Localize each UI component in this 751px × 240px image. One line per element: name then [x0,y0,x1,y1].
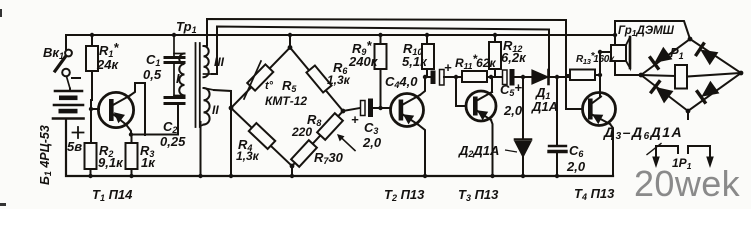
svg-text:1,3к: 1,3к [327,73,351,87]
svg-text:I: I [176,72,180,86]
svg-text:R5: R5 [282,78,297,94]
resistor R8 [317,113,343,140]
svg-text:C2: C2 [163,119,177,135]
capacitor C1 [165,35,184,96]
svg-text:R13*160к: R13*160к [576,51,615,66]
svg-text:Б1 4РЦ-53: Б1 4РЦ-53 [38,125,53,185]
svg-text:20wek: 20wek [634,163,741,204]
svg-text:Т2 П13: Т2 П13 [384,187,425,203]
wire: base lead T1 [91,108,99,110]
wire: to C5 [491,76,503,78]
node: bridge bottom vertex [290,164,295,179]
transistor T1 [98,92,133,127]
wire: main top rail [66,35,615,49]
svg-text:R730: R730 [314,150,344,166]
svg-text:6,2к: 6,2к [501,50,527,65]
wire: T2 collector up [420,77,425,95]
thermistor R5 KMT-12 [244,61,273,99]
svg-text:2,0: 2,0 [503,103,523,118]
svg-text:III: III [214,55,225,69]
svg-text:C6: C6 [569,143,584,159]
wire: top line from winding III top to T4 base [207,19,582,109]
node: R3 ground [129,174,133,178]
resistor R12 [489,35,501,77]
resistor R4 [249,123,275,149]
capacitor C5 [503,69,533,86]
node: R13 right junction [598,73,602,77]
resistor R11 [456,71,491,82]
wire: second line from winding III bottom to D1 node [212,27,549,76]
svg-text:5,1к: 5,1к [402,54,428,69]
switch Vk1 [55,50,80,89]
svg-text:C1: C1 [146,52,160,68]
capacitor C2 [165,98,184,104]
svg-text:1,3к: 1,3к [236,149,260,163]
transistor T2 [391,94,424,127]
svg-text:C3: C3 [364,120,378,136]
transformer Tr1 core [196,43,200,127]
resistor R3 [126,135,138,177]
wire: T4 collector [599,52,601,97]
svg-text:0,5: 0,5 [143,67,162,82]
svg-text:Гр1ДЭМШ: Гр1ДЭМШ [618,25,675,38]
node: speaker left junction [598,50,602,54]
node: T3 base junction [454,75,458,79]
svg-text:2,0: 2,0 [566,159,586,174]
wire: winding II bottom to ground [200,122,202,176]
svg-text:Д3–Д6Д1А: Д3–Д6Д1А [603,124,683,142]
diode D5 [651,81,673,102]
resistor R2 [85,143,97,176]
svg-text:+: + [351,112,359,127]
svg-text:9,1к: 9,1к [98,155,124,170]
transistor T4 [583,93,616,126]
svg-text:220: 220 [291,125,312,139]
svg-text:Д1А: Д1А [531,99,558,114]
wire: C3 to T2 base [381,107,392,109]
svg-text:P1: P1 [670,45,684,61]
svg-text:0,25: 0,25 [160,134,186,149]
capacitor C6 [549,77,566,176]
node: T1 emitter junction [129,132,133,136]
transformer Tr1 winding I [174,54,185,96]
bridge arm bottom-right [292,111,343,166]
node: C1 top [172,33,176,37]
svg-text:+: + [444,60,452,75]
transistor T3 [466,91,496,121]
wire: bottom ground rail [66,120,613,176]
diode D3 [650,48,672,69]
svg-text:Т1 П14: Т1 П14 [92,187,133,203]
wire: winding II top to bridge left vertex [214,90,231,108]
wire: T1 emitter to node [126,125,131,135]
svg-text:5в: 5в [67,139,82,154]
speaker Gr1 DEMSh [600,21,690,75]
svg-text:Т4 П13: Т4 П13 [574,186,615,202]
node: R9 bottom junction [378,106,382,110]
svg-text:t°: t° [265,80,274,92]
diode D4 [696,43,717,64]
battery B1 4RTs-53 [53,89,84,139]
svg-text:Тр1: Тр1 [176,19,197,35]
svg-text:КМТ-12: КМТ-12 [265,94,307,108]
node: bridge left vertex [229,106,234,179]
svg-text:C44,0: C44,0 [385,74,418,90]
wire: T3 base drop [456,77,466,106]
node: bridge top vertex [288,33,293,50]
node: R2 ground [88,174,92,178]
resistor R13 [566,70,600,81]
node: R1 top junction [90,33,94,37]
node: R12 bottom junction [489,75,493,79]
scan edge artifacts [0,9,6,206]
wire: stage2 coupling [425,76,431,78]
svg-text:Т3 П13: Т3 П13 [458,187,499,203]
svg-text:Вк1: Вк1 [43,45,64,61]
svg-text:II: II [212,103,219,117]
capacitor C3 [361,99,381,118]
node: rail meets speaker [613,33,617,37]
resistor R6 [306,65,331,92]
wire: T2 emitter to ground [418,125,425,177]
diode D1 [532,70,571,84]
wire: T3 collector up [491,77,493,92]
wire: bridge right vertex to C3 [343,108,360,111]
svg-text:1к: 1к [141,155,156,170]
node: bridge right vertex [341,109,346,114]
svg-text:240к: 240к [348,54,379,69]
svg-text:Д2Д1А: Д2Д1А [458,143,499,159]
resistor R9 [375,35,387,108]
bridge arm left-bottom [231,108,292,166]
leader line D2 [505,150,517,152]
wire: base divider vertical [90,100,92,143]
node: T1 base junction [89,107,93,111]
wire: T3 emitter to ground [491,120,493,176]
resistor R10 [422,35,434,77]
bridge arm left-top [231,48,290,109]
transformer Tr1 winding II [201,88,215,126]
transformer Tr1 winding III [204,46,213,77]
node: T2 collector junction [423,75,427,79]
wire: T1 collector loop [130,83,145,135]
wire: emitter node horizontal [131,106,178,135]
capacitor C4 [431,70,457,86]
node: D2 junction [521,75,525,79]
resistor R1 [86,35,98,100]
node: C6 junction [555,75,559,79]
variable arrow R8 [337,134,355,151]
bridge arm top-right [290,48,343,112]
node: winding II ground [198,174,202,178]
wire: T4 emitter to rail end [610,124,613,176]
svg-text:2,0: 2,0 [362,135,382,150]
diode D2 [515,77,531,176]
resistor R7 [291,140,317,167]
rectifier bridge D3-D6 [639,37,744,119]
svg-text:24к: 24к [96,57,119,72]
diode D6 [697,82,719,103]
relay contact 1P1 [647,144,714,169]
relay coil P1 [675,65,687,89]
